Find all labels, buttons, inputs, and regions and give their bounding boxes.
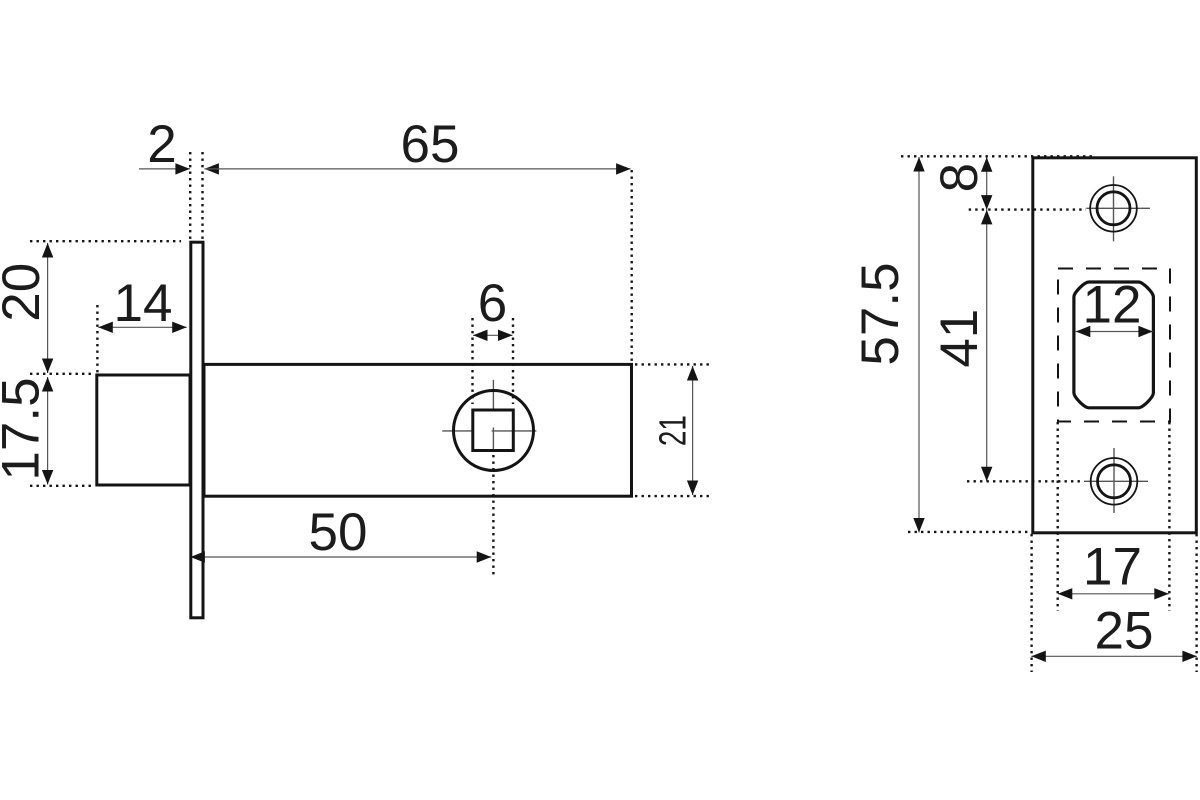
dimension 14 (bolt length) <box>97 274 186 373</box>
dimension 20 (faceplate top offset) <box>0 241 181 374</box>
svg-text:20: 20 <box>0 263 51 322</box>
dimension 25 (plate width) <box>1031 534 1197 672</box>
dotted centerline below spindle <box>492 455 494 578</box>
bottom screw hole crosshair <box>1084 448 1148 513</box>
dimension 8 (top screw offset) <box>930 157 1086 209</box>
svg-text:12: 12 <box>1083 276 1142 335</box>
svg-text:57.5: 57.5 <box>851 262 910 365</box>
dashed rectangle (hole zone) <box>1058 269 1170 422</box>
spindle square hole <box>473 410 514 451</box>
dimension 50 (backset) <box>190 503 491 563</box>
dimension 57.5 (plate height) <box>851 156 1095 532</box>
latch hole (chamfered rounded rectangle) <box>1074 282 1154 408</box>
dimension 2 (faceplate thickness) <box>139 115 219 240</box>
svg-text:17: 17 <box>1083 537 1142 596</box>
svg-text:50: 50 <box>309 503 368 562</box>
latch bolt rectangle <box>97 375 190 485</box>
svg-text:8: 8 <box>930 163 989 192</box>
svg-text:41: 41 <box>930 309 989 368</box>
svg-text:21: 21 <box>652 415 694 446</box>
bottom screw hole <box>1091 458 1138 505</box>
dimension 21 (body height) <box>635 364 713 496</box>
svg-text:65: 65 <box>401 115 460 174</box>
dimension 17.5 (bolt height) <box>0 377 93 486</box>
dimension 12 (hole width) <box>1076 276 1153 338</box>
dimension 17 (hole zone width) <box>1058 422 1170 611</box>
latch body rectangle <box>204 364 632 496</box>
top screw hole <box>1090 185 1137 232</box>
top screw hole crosshair <box>1086 176 1150 241</box>
spindle centerline cross (chain line segments) <box>442 380 536 452</box>
dimension 65 (body length) <box>204 115 631 362</box>
faceplate bar <box>191 242 203 618</box>
svg-text:2: 2 <box>147 115 176 174</box>
svg-text:14: 14 <box>114 274 173 333</box>
strike plate outline <box>1033 158 1197 533</box>
svg-text:6: 6 <box>478 274 507 333</box>
spindle circle <box>454 391 534 471</box>
dimension 6 (spindle square width) <box>473 274 514 404</box>
dimension 41 (screw spacing) <box>930 210 1084 482</box>
svg-text:25: 25 <box>1095 601 1154 660</box>
svg-text:17.5: 17.5 <box>0 377 51 480</box>
